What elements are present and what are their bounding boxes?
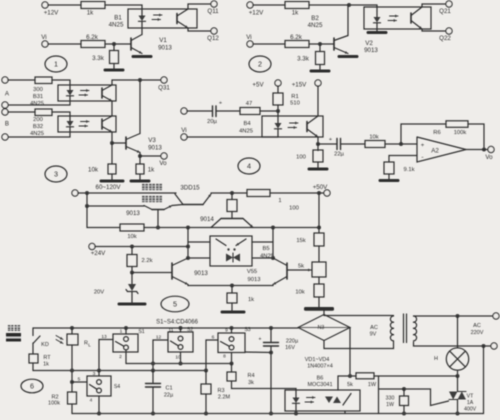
svg-text:+12V: +12V <box>44 10 59 17</box>
svg-text:B6: B6 <box>317 376 324 382</box>
wire cap to 47 <box>216 110 240 112</box>
node V3 base junction <box>110 141 114 145</box>
node Q22 terminal <box>446 28 452 34</box>
node collector junction <box>347 3 351 7</box>
svg-text:Q11: Q11 <box>207 8 219 15</box>
svg-text:20V: 20V <box>94 290 104 296</box>
svg-text:1A: 1A <box>467 400 474 406</box>
svg-text:5: 5 <box>78 377 81 383</box>
label circle 3 <box>45 166 67 182</box>
node S1 in <box>124 326 128 330</box>
node S3 out bus end <box>230 362 234 366</box>
node S1 S4 control node <box>97 369 101 373</box>
wire 300 to B31 LED <box>52 80 70 85</box>
label tiaozhengguan 3DD15 <box>142 184 148 190</box>
resistor 47 <box>240 108 260 115</box>
resistor 3.3k (circuit 1) <box>113 44 115 51</box>
wire Vi to 6.2k (2) <box>253 43 285 45</box>
wire +12V rail 2 <box>253 4 285 6</box>
node base junction <box>112 42 116 46</box>
analog switch S2 box <box>168 332 193 352</box>
svg-text:Vi: Vi <box>181 127 186 134</box>
LED of B5 horizontal <box>226 254 233 262</box>
svg-text:KD: KD <box>41 342 49 348</box>
resistor 1k (circuit 2) <box>285 2 309 9</box>
svg-text:4N25: 4N25 <box>30 101 44 107</box>
svg-text:3: 3 <box>93 371 96 377</box>
wire B4 emitter down <box>317 137 319 144</box>
svg-text:S3: S3 <box>244 327 250 333</box>
wire 330 to bottom rail <box>403 406 405 414</box>
pin 6 of S3 <box>206 340 218 371</box>
svg-text:3: 3 <box>54 170 58 179</box>
wire B5 left photo lead <box>188 241 210 243</box>
node B5 left collector node <box>186 256 190 260</box>
wire Vi to LED cathode <box>187 136 278 138</box>
resistor 6.2k (circuit 1) <box>81 41 105 48</box>
svg-text:1: 1 <box>278 198 281 204</box>
svg-text:47: 47 <box>246 101 252 107</box>
pin 3 of S4 <box>98 371 100 377</box>
wire input to cap <box>187 110 212 112</box>
node R3 bottom <box>204 412 208 416</box>
svg-text:1: 1 <box>120 329 123 335</box>
ground of V1 emitter <box>133 55 151 58</box>
wire to cap 22u <box>318 143 337 145</box>
node AC bottom junction <box>482 344 486 348</box>
svg-text:9.1k: 9.1k <box>404 167 415 173</box>
wire Vi to 6.2k <box>48 43 81 45</box>
ground of 10k <box>111 174 113 180</box>
wire V55 base to pot wiper <box>287 269 311 271</box>
svg-text:AC: AC <box>473 323 481 329</box>
resistor R2 100k <box>68 392 77 404</box>
ground of 9.1k <box>388 174 390 179</box>
svg-text:300: 300 <box>33 87 43 93</box>
svg-text:1W: 1W <box>368 382 377 388</box>
svg-text:AC: AC <box>370 325 378 331</box>
wire lamp to triac node <box>457 370 459 376</box>
svg-text:220V: 220V <box>471 330 484 336</box>
node LED anode junction <box>276 109 280 113</box>
svg-text:5k: 5k <box>298 264 304 270</box>
svg-text:MOC3041: MOC3041 <box>307 382 332 388</box>
svg-text:9013: 9013 <box>194 270 208 277</box>
wire bridge top to ground bar <box>323 310 325 315</box>
pin 10 of S2 <box>180 352 182 364</box>
label circle 1 <box>45 56 67 72</box>
wire +24V rail <box>95 246 188 248</box>
wire B31 emitter to B32 collector <box>111 101 113 116</box>
ground of 3.3k (2) <box>319 65 321 70</box>
phototransistor of B2 <box>410 13 412 23</box>
node opamp + input junction <box>399 142 403 146</box>
svg-text:1W: 1W <box>386 402 394 408</box>
ground of B2 LED <box>368 31 386 34</box>
svg-text:V2: V2 <box>365 40 373 47</box>
node S3 control rail B <box>204 369 208 373</box>
wire AC bottom down right side <box>483 346 485 414</box>
wire V3 emitter node <box>139 153 141 157</box>
wire B31 LED cathode to A- terminal <box>8 101 70 105</box>
ground of 1k <box>139 174 141 180</box>
wire feedback to output <box>468 124 484 150</box>
pin 4 of S4 <box>98 396 100 414</box>
svg-text:16V: 16V <box>285 345 295 351</box>
svg-text:20µ: 20µ <box>207 119 217 125</box>
node input A+ terminal <box>2 77 8 83</box>
wire bridge plus down <box>349 328 351 377</box>
node +12V terminal (circuit 1) <box>42 2 48 8</box>
resistor 3.3k (circuit 2) <box>319 44 321 52</box>
node input rail junction <box>85 191 89 195</box>
wire pot to 10k <box>318 277 320 284</box>
svg-text:4N25: 4N25 <box>30 131 44 137</box>
wire collector to Q11 <box>188 4 211 9</box>
svg-text:2.2k: 2.2k <box>142 258 153 264</box>
node AC 220V top terminal <box>493 313 499 319</box>
svg-text:22µ: 22µ <box>334 152 344 158</box>
svg-text:VT: VT <box>467 394 474 400</box>
node bridge plus tie <box>348 374 352 378</box>
label circle 6 <box>21 379 43 393</box>
optocoupler B2 4N25 box <box>364 7 431 29</box>
svg-text:2: 2 <box>258 60 262 69</box>
wire gate supply <box>338 375 356 377</box>
wire cap to 10k <box>341 143 366 145</box>
svg-text:1k: 1k <box>292 10 299 17</box>
svg-text:Vi: Vi <box>246 34 251 41</box>
node triac top junction <box>456 374 460 378</box>
phototransistor of B4 <box>306 122 308 132</box>
node C1 bus cross <box>151 362 155 366</box>
svg-text:R4: R4 <box>247 373 254 379</box>
wire opamp output <box>466 149 488 151</box>
wire B+ to 200 <box>8 111 35 113</box>
ground of divider chain <box>306 307 333 310</box>
phototransistor of B32 <box>101 119 103 129</box>
svg-text:+24V: +24V <box>91 250 106 257</box>
svg-text:V1: V1 <box>159 37 167 44</box>
wire B31 collector to Q31 <box>112 80 161 85</box>
svg-text:1k: 1k <box>43 362 49 368</box>
capacitor 22u <box>336 139 338 150</box>
svg-text:60~120V: 60~120V <box>96 184 122 191</box>
node input B- terminal <box>2 134 8 140</box>
node +50V junction <box>317 191 321 195</box>
wire 6.2k to base node <box>105 43 131 45</box>
analog switch S1 box <box>113 334 138 352</box>
node Q21 terminal <box>446 1 452 7</box>
svg-text:S2: S2 <box>187 327 193 333</box>
node RL top <box>70 326 74 330</box>
svg-text:Vi: Vi <box>41 34 46 41</box>
svg-text:9013: 9013 <box>248 277 261 283</box>
coupling arrows B32 <box>81 121 90 123</box>
resistor R1 510 <box>277 86 279 93</box>
resistor R6 100k <box>446 121 468 128</box>
coupling arrows B31 <box>81 90 90 92</box>
svg-text:B4: B4 <box>243 121 251 127</box>
wire +12V rail <box>48 4 81 6</box>
wire 10k to ground <box>318 297 320 307</box>
node input B+ terminal <box>2 109 8 115</box>
wire B32 emitter to node <box>111 132 113 143</box>
resistor R4 3k <box>231 364 233 373</box>
optocoupler B4 4N25 box <box>262 116 323 137</box>
transformer primary winding <box>390 316 393 322</box>
wire 1k to junction <box>309 4 377 6</box>
resistor 2.2k <box>131 247 133 255</box>
svg-text:2.2M: 2.2M <box>218 395 231 401</box>
svg-text:+: + <box>219 101 222 107</box>
resistor 15k <box>314 233 324 246</box>
wire B5 right photo lead <box>252 241 273 243</box>
node Q11 terminal <box>211 1 217 7</box>
wire feedback up <box>401 124 446 144</box>
wire RL down <box>71 345 73 392</box>
transistor V3 9013 <box>125 137 127 149</box>
svg-text:10k: 10k <box>295 290 304 296</box>
node S4 out bottom <box>97 412 101 416</box>
svg-text:100: 100 <box>289 206 299 212</box>
node Q31 junction <box>138 78 142 82</box>
svg-text:5: 5 <box>173 300 177 309</box>
wire 47 to LED anode <box>260 110 278 112</box>
resistor 10k (circuit 3) <box>111 143 113 164</box>
wire A+ to 300 <box>8 79 35 81</box>
svg-text:4: 4 <box>247 162 251 171</box>
svg-text:B1: B1 <box>114 15 122 22</box>
phototransistor of B1 <box>176 14 178 24</box>
node S4 control tie <box>70 380 74 384</box>
analog switch S3 box <box>218 333 245 353</box>
svg-text:-: - <box>421 154 423 161</box>
resistor 6.2k (circuit 2) <box>285 41 309 48</box>
node bus right end <box>317 226 321 230</box>
resistor R3 2.2M <box>205 371 207 385</box>
pin 13 of S1 <box>99 340 113 371</box>
wire B5 left LED lead <box>188 257 210 259</box>
wire emitter tie <box>187 285 189 286</box>
node emitter junction <box>316 142 320 146</box>
svg-text:6.2k: 6.2k <box>290 34 303 41</box>
svg-text:9013: 9013 <box>158 45 172 52</box>
node +24V terminal <box>89 243 95 249</box>
svg-text:3k: 3k <box>248 380 254 386</box>
wire input rail <box>78 192 176 194</box>
svg-text:9013: 9013 <box>364 47 378 54</box>
svg-text:22µ: 22µ <box>164 393 174 399</box>
light arrows at RL <box>56 336 63 340</box>
LED of B4 <box>275 123 282 129</box>
resistor 1 ohm <box>247 190 270 197</box>
pin 1 of S1 <box>125 328 127 334</box>
node input A- terminal <box>2 102 8 108</box>
svg-text:R6: R6 <box>433 130 440 136</box>
svg-text:1k: 1k <box>87 10 94 17</box>
svg-text:H: H <box>434 356 438 362</box>
pin 8 of S3 <box>231 353 233 364</box>
wire left column to 10k <box>87 206 120 228</box>
coupling arrows B1 <box>154 14 163 16</box>
wire 200 to B32 LED <box>52 112 70 116</box>
resistor 1k (circuit 1) <box>81 2 105 9</box>
svg-text:3DD15: 3DD15 <box>180 185 200 192</box>
svg-text:L: L <box>88 343 91 348</box>
wire control bus <box>144 227 319 229</box>
resistor 10k (circuit 4) <box>365 141 385 148</box>
svg-text:10k: 10k <box>88 167 99 174</box>
svg-text:10k: 10k <box>369 135 378 141</box>
svg-text:8: 8 <box>223 354 226 360</box>
label qudongguan driver <box>142 196 148 202</box>
svg-text:2: 2 <box>119 354 122 360</box>
capacitor C1 22u <box>152 371 154 383</box>
svg-text:Q31: Q31 <box>158 85 170 92</box>
analog switch S4 box <box>87 376 111 396</box>
svg-text:5k: 5k <box>347 382 353 388</box>
svg-text:400V: 400V <box>464 407 477 413</box>
wire output rail <box>211 192 247 194</box>
wire B6 LED cathode to rail <box>295 411 297 414</box>
node 220u bottom <box>269 412 273 416</box>
svg-text:S1: S1 <box>138 329 144 335</box>
svg-text:4N25: 4N25 <box>308 22 323 29</box>
svg-text:4: 4 <box>90 398 93 404</box>
svg-text:Q22: Q22 <box>439 35 451 42</box>
resistor RT 1k <box>32 343 34 354</box>
wire base wire left transistor <box>132 272 172 274</box>
node zener junction <box>130 271 134 275</box>
node base junction 2 <box>318 42 322 46</box>
wire MOC top pin <box>337 376 339 390</box>
node driver base node <box>156 226 160 230</box>
node Q31 terminal <box>161 77 167 83</box>
svg-text:Vo: Vo <box>159 160 167 167</box>
node output junction <box>482 148 486 152</box>
wire MT1 bleed <box>378 376 380 414</box>
resistor 1k tail <box>231 286 233 294</box>
ground of 100 <box>317 162 319 168</box>
svg-text:B31: B31 <box>33 94 43 100</box>
resistor 330 1W <box>403 389 405 396</box>
phototransistor of B31 <box>101 88 103 98</box>
resistor 300 <box>35 77 52 84</box>
node 2.2k top junction <box>130 245 134 249</box>
potentiometer 5k <box>312 262 326 277</box>
wire output bus A <box>126 363 232 365</box>
svg-text:13: 13 <box>101 334 107 340</box>
triac of B6 <box>325 397 333 404</box>
wire anode into box <box>277 111 279 117</box>
switch lever S4 <box>90 385 98 390</box>
optocoupler B5 4N25 box <box>210 236 252 266</box>
phototransistor of B5 <box>216 239 226 246</box>
resistor 200 <box>35 109 52 116</box>
node S2 in <box>179 326 183 330</box>
svg-text:RT: RT <box>43 355 51 361</box>
node 60-120V input terminal <box>72 190 78 196</box>
wire driver base down <box>157 210 159 228</box>
label circle 2 <box>249 56 271 72</box>
svg-text:N3: N3 <box>318 325 325 331</box>
wire top rail circuit 6 <box>33 327 298 329</box>
svg-text:9013: 9013 <box>148 145 162 152</box>
LED of B6 <box>293 398 300 404</box>
resistor 1k (circuit 3) <box>139 156 141 164</box>
wire R4 to B6 LED <box>232 381 297 390</box>
wire 1k to LED anode <box>105 5 142 9</box>
node S2 out <box>179 362 183 366</box>
wire R2 to bottom rail <box>71 404 73 414</box>
node triac bottom <box>456 412 460 416</box>
svg-text:1N4007×4: 1N4007×4 <box>307 364 333 370</box>
svg-text:VD1~VD4: VD1~VD4 <box>305 357 330 363</box>
transistor 3DD15 pass <box>183 204 203 206</box>
node B5 right collector node <box>271 256 275 260</box>
wire secondary bottom to AC terminal <box>414 342 492 346</box>
coupling arrows B4 <box>290 122 299 124</box>
bridge rectifier VD1-VD4 <box>298 315 350 341</box>
svg-text:S4: S4 <box>114 384 120 390</box>
svg-text:6: 6 <box>30 382 34 391</box>
photoresistor RL <box>71 328 73 334</box>
wire rail to +50V <box>270 192 325 194</box>
wire +15V to B4 collector <box>317 86 319 116</box>
optocoupler B31 box <box>58 85 116 101</box>
svg-text:C1: C1 <box>165 386 172 392</box>
label circle 5 <box>161 296 189 312</box>
wire V3 collector to Q31 node <box>139 80 141 134</box>
svg-text:100k: 100k <box>48 401 60 407</box>
ground bar shared <box>306 308 333 311</box>
node Vo terminal (circuit 3) <box>161 153 167 159</box>
wire R3 to bottom rail <box>205 394 207 414</box>
node AC 220V bottom terminal <box>491 343 497 349</box>
switch lever S1 <box>116 342 124 347</box>
ground of V2 emitter <box>339 55 357 58</box>
svg-text:B5: B5 <box>262 246 269 252</box>
svg-text:4N25: 4N25 <box>109 22 124 29</box>
node C1 rail B <box>151 369 155 373</box>
label circle 4 <box>238 158 260 174</box>
wire left B5 column <box>187 228 189 259</box>
switch lever S3 <box>221 342 230 347</box>
LED of B1 <box>139 16 146 22</box>
wire B6 triac bottom pin <box>344 411 346 414</box>
svg-text:+5V: +5V <box>252 82 264 89</box>
wire secondary top to AC terminal <box>414 315 494 317</box>
zener diode 20V <box>131 273 133 285</box>
node tail junction <box>230 284 234 288</box>
resistor 9.1k <box>384 162 394 174</box>
wire +50V sense column <box>318 193 320 233</box>
wire S3 area to cap node <box>245 351 271 354</box>
lamp H <box>457 316 459 348</box>
svg-text:3.3k: 3.3k <box>92 55 105 62</box>
node +24V tie <box>186 245 190 249</box>
svg-text:200: 200 <box>33 117 43 123</box>
wire LED cathode to ground <box>376 29 378 32</box>
wire collector to Q21 <box>422 4 446 7</box>
svg-text:10: 10 <box>175 355 181 361</box>
svg-text:+: + <box>421 143 425 149</box>
op-amp A2 <box>417 137 466 162</box>
node C1 bottom <box>151 412 155 416</box>
svg-text:V55: V55 <box>247 269 257 275</box>
svg-text:100k: 100k <box>454 130 467 136</box>
